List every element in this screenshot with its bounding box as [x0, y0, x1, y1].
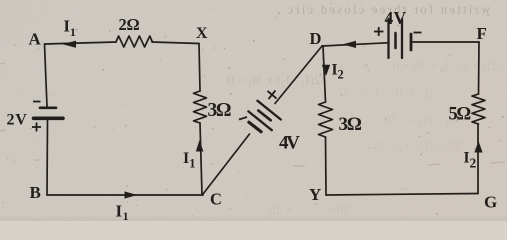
svg-text:4V: 4V — [385, 8, 407, 28]
arrow I1 top pointing left — [63, 41, 77, 48]
wire X down to 3R — [199, 44, 200, 92]
svg-text:D: D — [310, 29, 322, 48]
minus 4V diagonal — [239, 117, 247, 120]
wire B to C — [47, 194, 203, 196]
resistor R 2ohm zigzag — [116, 36, 152, 47]
arrows — [63, 41, 483, 199]
resistor 3ohm right zigzag — [319, 102, 333, 137]
svg-text:3Ω: 3Ω — [208, 100, 231, 121]
svg-text:F: F — [477, 24, 487, 43]
arrow I2 at D pointing down — [322, 65, 330, 76]
plus 4V top — [374, 31, 384, 33]
wire 2R to X — [152, 42, 199, 44]
wire battery to F — [411, 41, 479, 43]
wire battery to B — [46, 120, 49, 195]
minus 4V top — [414, 32, 422, 34]
svg-text:3Ω: 3Ω — [339, 114, 362, 135]
arrow I1 bottom pointing right — [125, 191, 138, 198]
svg-text:- 2I1 + I2 - I3 + 30 = 0: - 2I1 + I2 - I3 + 30 = 0 — [393, 58, 505, 75]
svg-text:B: B — [30, 183, 41, 202]
wire 3R to C — [200, 123, 202, 195]
wire A to 2R — [45, 42, 116, 44]
ghost bleed-through text (mirrored) — [227, 3, 505, 220]
svg-text:2V: 2V — [7, 112, 28, 129]
svg-text:- 2(I1 - I2) + 3I1 = 0: - 2(I1 - I2) + 3I1 = 0 — [227, 72, 328, 89]
faint dash marks — [0, 63, 505, 166]
svg-text:30 + 2I2 - I3 = 30: 30 + 2I2 - I3 = 30 — [373, 138, 462, 155]
minus 2V — [33, 101, 41, 103]
resistor 5ohm zigzag — [472, 94, 485, 124]
plus 4V diagonal (drawn as x) — [268, 91, 277, 99]
wire D to battery 4V top — [322, 43, 387, 46]
wire A down to battery 2V — [45, 44, 48, 107]
svg-text:G: G — [484, 193, 497, 212]
arrow I1 left branch pointing up — [196, 140, 204, 152]
svg-text:X: X — [196, 25, 208, 42]
wire F down to 5R — [478, 42, 481, 94]
resistor 3ohm left zigzag — [194, 91, 207, 123]
wire D down to 3R right — [323, 46, 326, 102]
svg-text:4V: 4V — [279, 133, 300, 154]
battery 2V plates — [40, 107, 56, 110]
wire 5R to G — [477, 124, 479, 194]
svg-text:5Ω: 5Ω — [449, 105, 471, 125]
diagonal battery strokes — [249, 122, 261, 132]
plus 2V — [32, 126, 41, 128]
diagonal wire battery to D — [275, 46, 322, 104]
arrow top-right pointing left — [343, 41, 357, 48]
svg-text:C: C — [210, 190, 222, 209]
svg-text:Y: Y — [309, 185, 321, 204]
wire 3R to Y — [325, 137, 328, 195]
wire Y to G — [326, 194, 478, 196]
svg-text:2Ω: 2Ω — [119, 15, 140, 34]
diagonal wire C to battery 4V — [203, 134, 250, 194]
arrow I2 right pointing up — [474, 141, 482, 153]
battery 4V top plates — [387, 19, 389, 58]
battery polarity marks — [32, 27, 422, 132]
svg-text:A: A — [29, 30, 42, 49]
